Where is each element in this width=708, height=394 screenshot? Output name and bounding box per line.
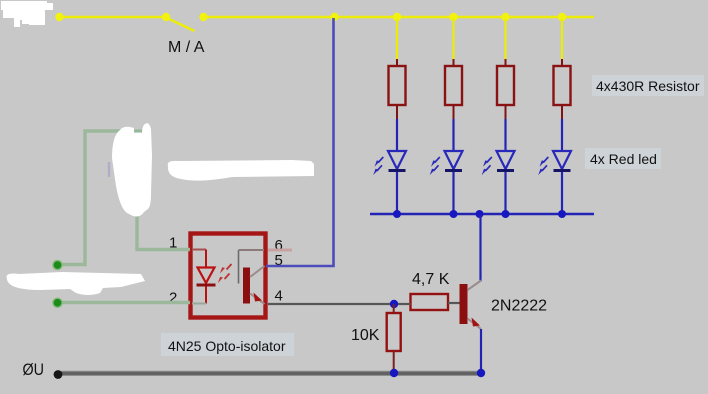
junction: top rail column 2 bbox=[449, 13, 457, 21]
junction: switch left bbox=[162, 13, 170, 21]
svg-text:10K: 10K bbox=[351, 327, 380, 344]
resistor R3 430R bbox=[497, 59, 514, 120]
label 4x Red led bbox=[585, 148, 661, 169]
wire: blue drop column 2 bbox=[452, 119, 454, 213]
junction: top rail column 4 bbox=[558, 13, 566, 21]
wire: pin1 lead inside opto bbox=[192, 249, 206, 251]
wire: base wire resistor to transistor bbox=[448, 302, 460, 304]
wire: yellow drop column 1 bbox=[396, 19, 398, 60]
wire: pin2 lead inside opto bbox=[192, 303, 206, 305]
junction: switch right bbox=[199, 13, 207, 21]
junction: rail column 1 bbox=[393, 210, 401, 218]
wire: blue drop column 4 bbox=[561, 119, 563, 213]
LED D4 bbox=[538, 151, 571, 175]
wire: green input to opto pin2 bbox=[58, 301, 191, 304]
wire: 0V bottom rail bbox=[57, 371, 482, 376]
LED D1 bbox=[373, 151, 406, 175]
junction: top rail column 3 bbox=[501, 13, 509, 21]
erased areas (white-out blobs) bbox=[1, 1, 314, 295]
resistor R2 430R bbox=[445, 59, 462, 120]
junction: emitter to 0V rail bbox=[477, 369, 485, 377]
svg-text:ØU: ØU bbox=[23, 360, 45, 379]
opto internal LED bbox=[197, 250, 216, 304]
opto phototransistor bbox=[239, 250, 265, 304]
label 4N25 Opto-isolator bbox=[161, 333, 294, 356]
wire: green input to opto pin1 bbox=[58, 131, 191, 265]
node: input terminal - (green) bbox=[53, 298, 62, 307]
transistor Q1 2N2222 bbox=[460, 281, 482, 330]
opto light arrow bbox=[218, 264, 232, 283]
svg-text:4x430R Resistor: 4x430R Resistor bbox=[596, 78, 700, 94]
junction: 10K to 0V rail bbox=[390, 369, 398, 377]
wire: top supply rail (yellow) left section bbox=[59, 16, 166, 19]
svg-text:4: 4 bbox=[275, 288, 283, 305]
wire: yellow drop column 2 bbox=[452, 19, 454, 60]
svg-text:4,7 K: 4,7 K bbox=[412, 271, 450, 288]
label 4x430R Resistor bbox=[592, 75, 704, 96]
junction: rail column 4 bbox=[558, 210, 566, 218]
wire: LED cathode rail bbox=[370, 213, 594, 215]
erased remnant mark (faint blue) bbox=[108, 162, 111, 177]
junction: top rail to opto branch bbox=[330, 13, 338, 21]
wire: top supply rail (yellow) right section bbox=[204, 16, 595, 19]
resistor R1 430R bbox=[389, 59, 406, 120]
wire: opto pin4 to resistor R5 bbox=[268, 303, 411, 305]
switch M/A blade bbox=[168, 19, 195, 32]
wire: blue drop column 1 bbox=[396, 119, 398, 213]
node: 0U terminal bbox=[54, 370, 63, 379]
junction: top rail left terminal bbox=[55, 13, 63, 21]
wire: blue drop column 3 bbox=[504, 119, 506, 213]
wire: emitter down to 0V rail bbox=[480, 329, 482, 372]
junction: rail column 2 bbox=[450, 210, 458, 218]
resistor R6 10K bbox=[387, 304, 401, 371]
junction: top rail column 1 bbox=[393, 13, 401, 21]
svg-text:2N2222: 2N2222 bbox=[491, 298, 547, 315]
wire: pin6 stub (pink) bbox=[268, 249, 292, 252]
wire: pin5 to top rail (purple) bbox=[266, 18, 334, 266]
junction: rail to transistor bbox=[476, 210, 484, 218]
svg-text:M / A: M / A bbox=[168, 39, 205, 56]
wire: yellow drop column 3 bbox=[504, 19, 506, 60]
opto-isolator U1 4N25 body bbox=[191, 234, 266, 318]
node: input terminal + (green) bbox=[53, 260, 62, 269]
resistor R4 430R bbox=[554, 59, 571, 120]
wire: rail down to collector bbox=[479, 215, 481, 281]
svg-text:4N25 Opto-isolator: 4N25 Opto-isolator bbox=[168, 338, 286, 354]
junction: rail column 3 bbox=[502, 210, 510, 218]
resistor R5 4,7K bbox=[411, 294, 449, 310]
LED D3 bbox=[482, 151, 515, 175]
svg-text:4x Red led: 4x Red led bbox=[590, 151, 657, 167]
junction: pin4 wire to 10K bbox=[390, 300, 398, 308]
wire: yellow drop column 4 bbox=[561, 19, 563, 60]
LED D2 bbox=[430, 151, 463, 175]
